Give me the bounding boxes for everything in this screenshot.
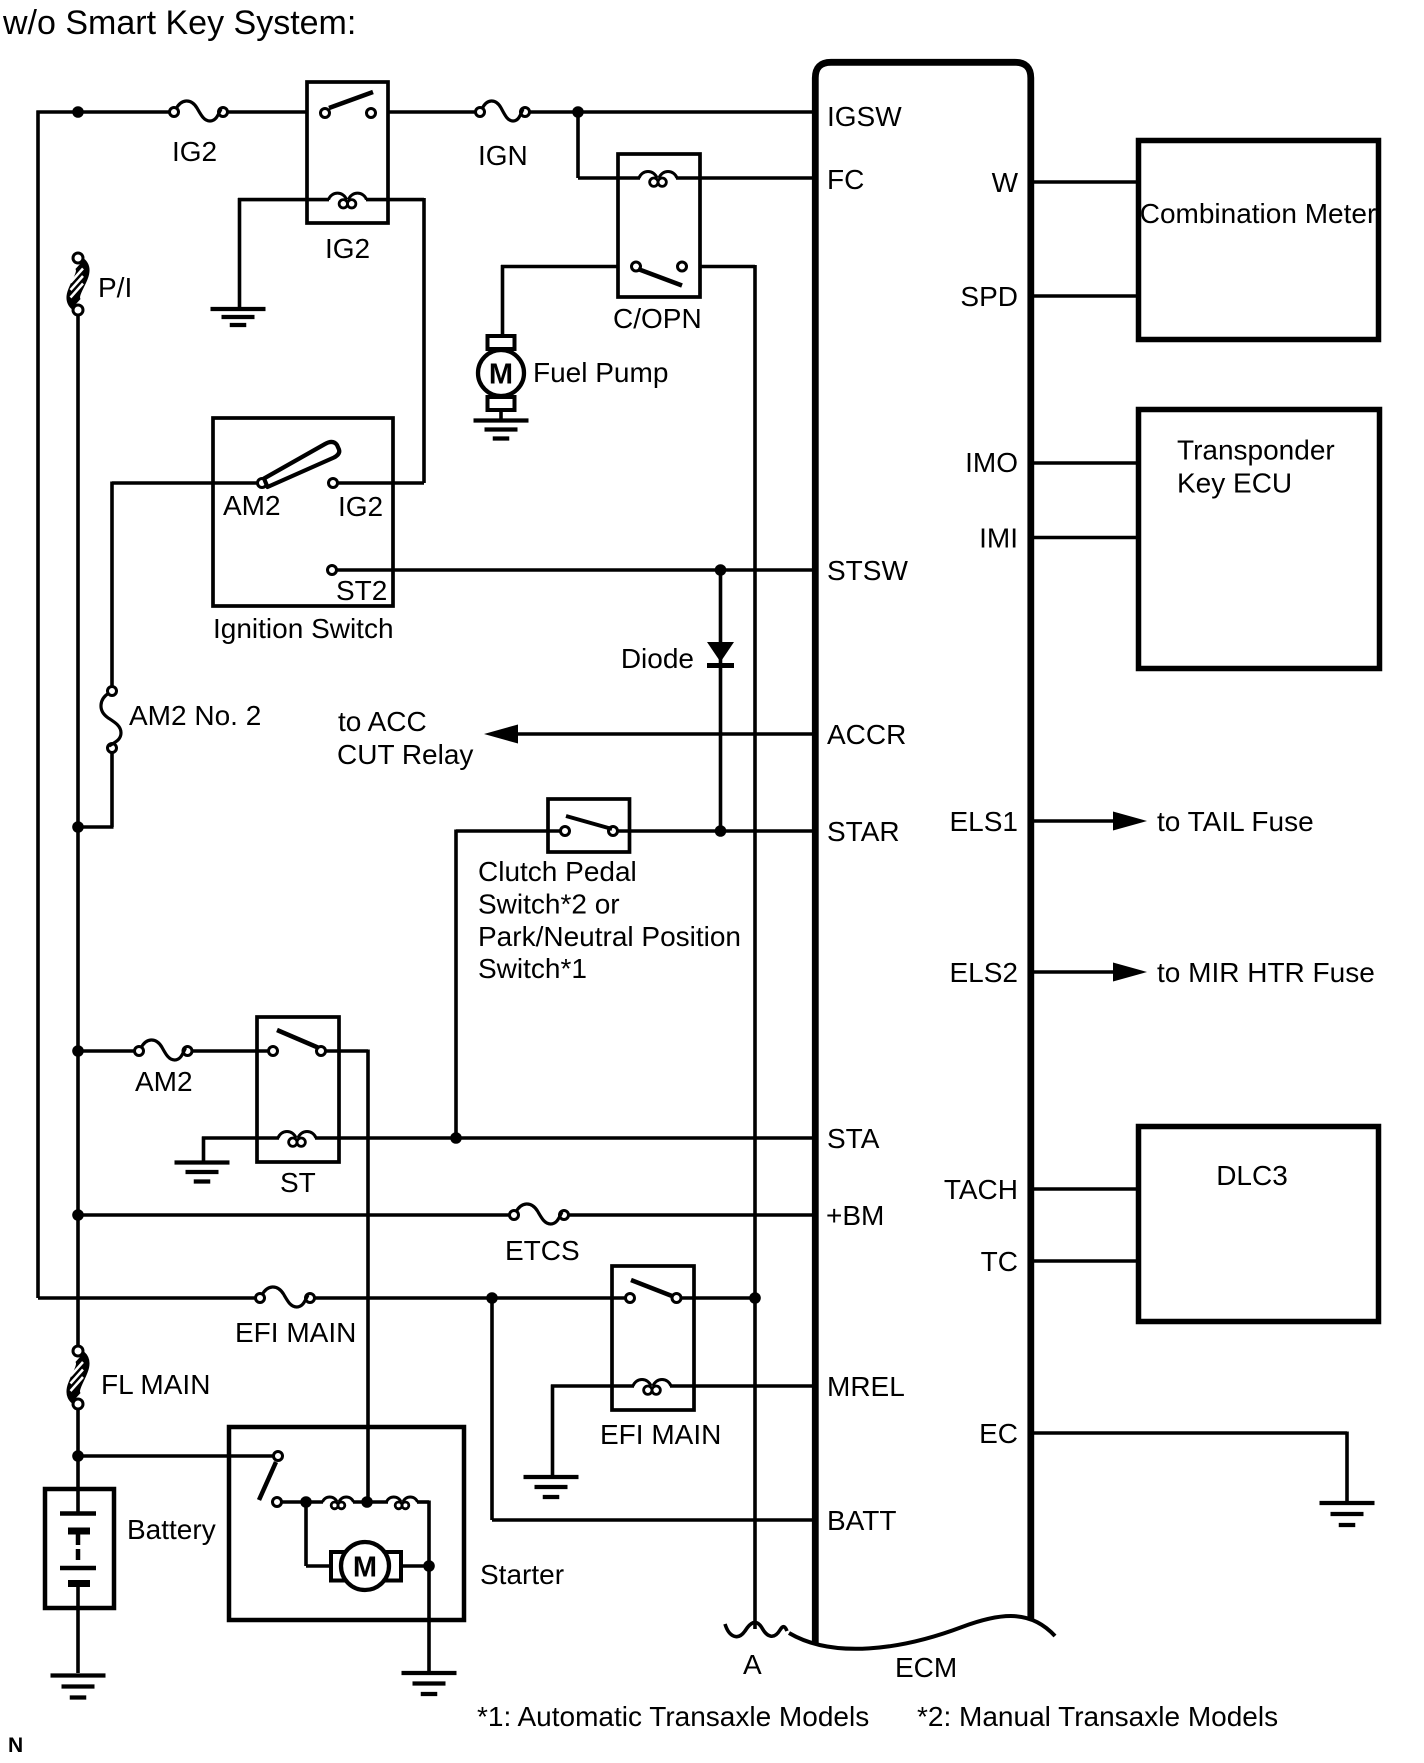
label C/OPN <box>613 303 702 334</box>
wire <box>700 176 812 180</box>
svg-text:STAR: STAR <box>827 816 900 847</box>
fuse ETCS <box>510 1204 569 1224</box>
wire <box>78 1049 135 1053</box>
svg-text:*2: Manual Transaxle Models: *2: Manual Transaxle Models <box>917 1701 1278 1732</box>
starter switch contact top <box>274 1452 283 1461</box>
wire <box>427 1566 431 1671</box>
svg-text:ST2: ST2 <box>336 575 387 606</box>
svg-text:IG2: IG2 <box>172 136 217 167</box>
label Switch*1 <box>478 953 587 984</box>
label ECM <box>895 1652 957 1683</box>
svg-text:ST: ST <box>280 1167 316 1198</box>
label A <box>743 1649 762 1680</box>
label to ACC <box>338 706 427 737</box>
svg-text:ETCS: ETCS <box>505 1235 580 1266</box>
wire <box>78 753 114 828</box>
wire <box>306 1502 332 1566</box>
svg-text:Switch*1: Switch*1 <box>478 953 587 984</box>
relay C/OPN coil <box>639 172 677 187</box>
label Switch*2 or <box>478 889 620 920</box>
wire <box>326 1050 369 1503</box>
svg-text:+BM: +BM <box>826 1200 884 1231</box>
pin FC <box>827 164 864 195</box>
node junction battery <box>72 1450 84 1462</box>
label to MIR HTR Fuse <box>1157 957 1375 988</box>
ground starter <box>402 1673 457 1694</box>
wire W <box>1031 180 1136 184</box>
label Fuel Pump <box>533 357 668 388</box>
svg-text:TC: TC <box>981 1246 1018 1277</box>
relay C/OPN blade <box>638 269 682 286</box>
wire <box>76 315 80 1346</box>
pin EC <box>979 1418 1018 1449</box>
ignition switch blade <box>264 442 339 487</box>
fuse AM2 No. 2 <box>101 687 121 753</box>
starter switch blade <box>259 1462 276 1500</box>
ground EFI MAIN relay <box>524 1477 579 1497</box>
wire <box>315 1296 626 1300</box>
pin STAR <box>827 816 900 847</box>
battery plate short 1 <box>68 1528 90 1535</box>
label ST <box>280 1167 316 1198</box>
battery cell stem <box>76 1489 80 1512</box>
node junction starter motor <box>423 1560 435 1572</box>
svg-text:M: M <box>353 1552 377 1584</box>
wire EC <box>1031 1432 1347 1502</box>
wire <box>700 265 755 1629</box>
starter coil 1 <box>323 1497 354 1509</box>
battery plate long 2 <box>60 1566 96 1571</box>
battery stub <box>76 1534 81 1545</box>
label AM2 contact <box>223 490 281 521</box>
relay EFI MAIN coil <box>633 1380 671 1395</box>
svg-text:ACCR: ACCR <box>827 719 906 750</box>
svg-text:AM2: AM2 <box>135 1066 193 1097</box>
svg-text:Clutch Pedal: Clutch Pedal <box>478 856 637 887</box>
svg-text:ELS2: ELS2 <box>950 957 1019 988</box>
Transponder Key ECU box <box>1139 410 1380 669</box>
wire <box>530 110 813 114</box>
svg-text:P/I: P/I <box>98 272 132 303</box>
label IG2 <box>172 136 217 167</box>
ignition switch box <box>213 418 393 606</box>
label CUT Relay <box>337 739 473 770</box>
relay IG2 blade <box>329 92 373 108</box>
wire <box>578 112 618 178</box>
svg-text:Fuel Pump: Fuel Pump <box>533 357 668 388</box>
ignition switch contact AM2 <box>258 479 267 488</box>
battery box <box>45 1489 114 1608</box>
label IG2 contact <box>338 491 383 522</box>
wire <box>78 1213 510 1217</box>
wire <box>78 1454 273 1458</box>
svg-text:EFI MAIN: EFI MAIN <box>235 1317 356 1348</box>
svg-text:SPD: SPD <box>960 281 1018 312</box>
wire ACCR <box>516 732 812 736</box>
wire ELS2 <box>1031 970 1115 974</box>
pin TACH <box>944 1174 1018 1205</box>
fusible link P/I <box>71 253 84 315</box>
fuse AM2 <box>135 1040 193 1060</box>
relay ST contact left <box>269 1047 278 1056</box>
svg-text:IGSW: IGSW <box>827 101 902 132</box>
wire <box>202 1137 257 1162</box>
clutch switch blade <box>566 816 612 829</box>
battery plate long 1 <box>60 1511 96 1516</box>
relay C/OPN contact right <box>678 262 687 271</box>
footnote *2 <box>917 1701 1278 1732</box>
wire <box>76 1409 80 1489</box>
node junction AM2No2 <box>72 821 84 833</box>
svg-text:M: M <box>489 359 513 391</box>
label Diode <box>621 643 694 674</box>
label Park/Neutral Position <box>478 921 741 952</box>
svg-text:IG2: IG2 <box>338 491 383 522</box>
relay EFI MAIN contact left <box>626 1294 635 1303</box>
svg-text:Park/Neutral Position: Park/Neutral Position <box>478 921 741 952</box>
pin SPD <box>960 281 1018 312</box>
relay EFI MAIN box <box>612 1266 694 1410</box>
label Transponder <box>1177 435 1335 466</box>
label AM2 fuse <box>135 1066 193 1097</box>
pin W <box>992 167 1019 198</box>
wire <box>37 111 170 1299</box>
wire <box>417 1501 429 1567</box>
node junction top-left <box>72 106 84 118</box>
svg-text:Starter: Starter <box>480 1559 564 1590</box>
svg-text:IGN: IGN <box>478 140 528 171</box>
label FL MAIN <box>101 1369 210 1400</box>
clutch pedal switch box <box>548 799 630 852</box>
wire <box>337 568 813 572</box>
ignition switch contact IG2 <box>329 479 338 488</box>
wire ELS1 <box>1031 819 1115 823</box>
svg-text:ECM: ECM <box>895 1652 957 1683</box>
pin IMO <box>965 447 1018 478</box>
node junction +BM <box>72 1209 84 1221</box>
relay EFI MAIN blade <box>631 1280 672 1296</box>
node junction IGSW/FC <box>572 106 584 118</box>
label ST2 contact <box>336 575 387 606</box>
svg-text:AM2: AM2 <box>223 490 281 521</box>
svg-text:N: N <box>8 1734 23 1757</box>
wire STA <box>339 1136 812 1140</box>
wire <box>353 1500 388 1504</box>
svg-text:FL MAIN: FL MAIN <box>101 1369 210 1400</box>
svg-text:to ACC: to ACC <box>338 706 427 737</box>
pin +BM <box>826 1200 884 1231</box>
svg-text:IMI: IMI <box>979 523 1018 554</box>
svg-text:Combination Meter: Combination Meter <box>1140 198 1377 229</box>
wire <box>257 1136 339 1140</box>
pin ELS2 <box>950 957 1019 988</box>
label IG2 relay <box>325 233 370 264</box>
label ETCS <box>505 1235 580 1266</box>
wire <box>38 1296 256 1300</box>
node junction A line <box>749 1292 761 1304</box>
wire <box>388 110 476 114</box>
svg-text:to TAIL Fuse: to TAIL Fuse <box>1157 806 1314 837</box>
ground fuel pump <box>474 421 529 439</box>
pin BATT <box>827 1505 896 1536</box>
arrow to TAIL Fuse <box>1113 812 1147 831</box>
pin TC <box>981 1246 1018 1277</box>
label Key ECU <box>1177 468 1292 499</box>
relay IG2 contact left <box>321 109 330 118</box>
node junction AM2 fuse <box>72 1045 84 1057</box>
wire <box>618 176 700 180</box>
svg-text:Battery: Battery <box>127 1514 216 1545</box>
wire A break squiggle <box>725 1622 787 1636</box>
svg-text:CUT Relay: CUT Relay <box>337 739 473 770</box>
wire <box>339 198 425 483</box>
label EFI MAIN fuse <box>235 1317 356 1348</box>
label EFI MAIN relay <box>600 1419 721 1450</box>
svg-text:Transponder: Transponder <box>1177 435 1335 466</box>
fuse IG2 <box>170 101 228 121</box>
svg-text:MREL: MREL <box>827 1371 905 1402</box>
wire <box>501 265 618 336</box>
svg-text:Diode: Diode <box>621 643 694 674</box>
starter coil 2 <box>387 1497 418 1509</box>
wire <box>551 1385 612 1476</box>
wire TACH <box>1031 1187 1136 1191</box>
relay ST box <box>257 1017 339 1162</box>
Combination Meter box <box>1139 141 1379 340</box>
svg-text:STSW: STSW <box>827 555 908 586</box>
svg-text:W: W <box>992 167 1019 198</box>
pin IMI <box>979 523 1018 554</box>
svg-text:Switch*2 or: Switch*2 or <box>478 889 620 920</box>
battery plate short 2 <box>68 1580 90 1587</box>
wire BATT <box>492 1298 812 1520</box>
clutch switch contact right <box>609 827 618 836</box>
relay C/OPN contact left <box>632 262 641 271</box>
ground ST relay <box>175 1163 230 1182</box>
DLC3 box <box>1139 1127 1379 1322</box>
svg-text:DLC3: DLC3 <box>1216 1160 1288 1191</box>
label AM2 No. 2 <box>129 700 261 731</box>
node junction clutch/STA <box>450 1132 462 1144</box>
node junction diode bottom <box>715 825 727 837</box>
svg-text:to MIR HTR Fuse: to MIR HTR Fuse <box>1157 957 1375 988</box>
wire <box>569 1213 813 1217</box>
relay ST blade <box>277 1030 319 1048</box>
svg-text:EFI MAIN: EFI MAIN <box>600 1419 721 1450</box>
battery dash <box>76 1549 81 1560</box>
wire IMI <box>1031 536 1136 540</box>
ground EC <box>1320 1503 1375 1525</box>
relay IG2 coil <box>329 193 367 208</box>
relay ST contact right <box>317 1047 326 1056</box>
wire <box>612 1384 694 1388</box>
pin ACCR <box>827 719 906 750</box>
pin ELS1 <box>950 806 1019 837</box>
title <box>2 4 356 42</box>
svg-text:AM2 No. 2: AM2 No. 2 <box>129 700 261 731</box>
svg-text:A: A <box>743 1649 762 1680</box>
starter box <box>229 1427 464 1620</box>
svg-text:TACH: TACH <box>944 1174 1018 1205</box>
wire <box>282 1500 324 1504</box>
svg-text:Key ECU: Key ECU <box>1177 468 1292 499</box>
starter motor <box>331 1542 401 1590</box>
wire <box>238 198 329 307</box>
fuel pump motor <box>478 336 524 419</box>
wire SPD <box>1031 294 1136 298</box>
wire <box>228 110 308 114</box>
ground battery <box>51 1676 106 1698</box>
ground IG2 relay <box>211 309 266 325</box>
diode <box>707 642 734 666</box>
label IGN <box>478 140 528 171</box>
wire <box>456 830 561 1139</box>
pin STSW <box>827 555 908 586</box>
wire IMO <box>1031 461 1136 465</box>
node junction starter coil left <box>300 1496 312 1508</box>
label Ignition Switch <box>213 613 394 644</box>
svg-text:Ignition Switch: Ignition Switch <box>213 613 394 644</box>
footnote *1 <box>477 1701 869 1732</box>
label P/I <box>98 272 132 303</box>
wire MREL <box>694 1384 812 1388</box>
svg-text:FC: FC <box>827 164 864 195</box>
pin STA <box>827 1123 880 1154</box>
label DLC3 <box>1216 1160 1288 1191</box>
node junction diode top <box>715 564 727 576</box>
wire <box>112 482 258 687</box>
relay C/OPN box <box>618 154 700 297</box>
relay EFI MAIN contact right <box>672 1294 681 1303</box>
svg-text:BATT: BATT <box>827 1505 896 1536</box>
battery stem bottom <box>76 1587 80 1673</box>
wire <box>681 1296 755 1300</box>
label Starter <box>480 1559 564 1590</box>
svg-text:ELS1: ELS1 <box>950 806 1019 837</box>
arrow to ACC CUT Relay <box>484 725 518 744</box>
ignition switch contact ST2 <box>328 566 337 575</box>
fuse IGN <box>476 101 530 121</box>
wire <box>192 1049 269 1053</box>
label to TAIL Fuse <box>1157 806 1314 837</box>
svg-text:EC: EC <box>979 1418 1018 1449</box>
label Battery <box>127 1514 216 1545</box>
relay ST coil <box>278 1132 316 1147</box>
pin MREL <box>827 1371 905 1402</box>
pin IGSW <box>827 101 902 132</box>
ECM box <box>789 62 1055 1648</box>
label N <box>8 1734 23 1757</box>
svg-text:w/o Smart Key System:: w/o Smart Key System: <box>2 4 356 42</box>
label Combination Meter <box>1140 198 1377 229</box>
wire <box>401 1564 429 1568</box>
starter switch contact bottom <box>273 1498 282 1507</box>
svg-text:C/OPN: C/OPN <box>613 303 702 334</box>
diode wire <box>719 570 723 831</box>
relay IG2 box <box>307 82 388 223</box>
svg-text:STA: STA <box>827 1123 880 1154</box>
svg-text:IG2: IG2 <box>325 233 370 264</box>
node junction BATT branch <box>486 1292 498 1304</box>
svg-text:*1: Automatic Transaxle Models: *1: Automatic Transaxle Models <box>477 1701 869 1732</box>
relay IG2 contact right <box>367 109 376 118</box>
svg-text:IMO: IMO <box>965 447 1018 478</box>
fuse EFI MAIN <box>256 1287 315 1307</box>
arrow to MIR HTR Fuse <box>1113 963 1147 982</box>
label Clutch Pedal <box>478 856 637 887</box>
clutch switch contact left <box>561 827 570 836</box>
node junction starter mid <box>361 1496 373 1508</box>
wire TC <box>1031 1259 1136 1263</box>
fusible link FL MAIN <box>71 1346 84 1409</box>
wire STAR <box>618 829 813 833</box>
